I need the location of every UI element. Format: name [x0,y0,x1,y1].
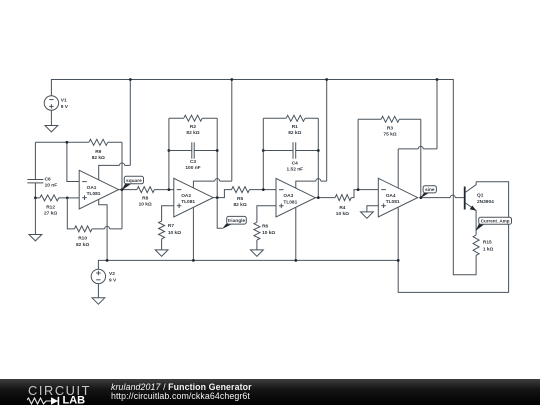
svg-text:Q1: Q1 [477,192,484,198]
svg-text:R10: R10 [78,236,87,242]
svg-text:OA4: OA4 [386,193,396,199]
svg-text:82 kΩ: 82 kΩ [76,242,89,248]
ground below V2 [92,298,105,304]
svg-text:R12: R12 [46,204,55,210]
svg-text:C6: C6 [45,176,51,182]
svg-text:R15: R15 [483,240,492,246]
wire to ground below R12 [34,198,36,235]
svg-text:10 nF: 10 nF [45,183,58,189]
footer caption text [111,383,252,401]
wire OA2 V- pin to bottom rail [192,207,194,260]
svg-text:R9: R9 [95,149,101,155]
svg-text:R2: R2 [190,124,196,130]
op-amp OA4 [378,178,417,217]
wire OA1 noninverting input [67,197,79,199]
wire OA2 V+ pin to top rail [193,80,231,189]
svg-text:TL081: TL081 [87,191,101,197]
resistor R1 [263,115,318,136]
svg-text:V2: V2 [109,271,115,277]
voltage source V1 [44,96,69,110]
transistor Q1 [464,182,494,235]
op-amp OA1 [79,170,118,209]
capacitor C4 [263,142,318,172]
svg-text:R6: R6 [262,223,268,229]
svg-text:TL081: TL081 [283,199,297,205]
wire R2/C3 left branch [168,118,170,189]
wire R3 right branch [420,119,422,197]
junction [168,188,171,191]
wire OA1 V- pin to bottom rail [99,199,107,260]
junction [262,188,265,191]
svg-text:75 kΩ: 75 kΩ [383,131,396,137]
resistor R15 [473,235,493,255]
resistor R10 [67,190,122,248]
svg-text:TL081: TL081 [181,199,195,205]
svg-text:OA2: OA2 [181,193,191,199]
wire bottom supply rail [98,260,398,269]
svg-text:Current_Amp: Current_Amp [481,219,510,224]
svg-text:R1: R1 [292,124,298,130]
wire OA4 noninverting input to ground [367,206,378,212]
svg-text:R4: R4 [339,205,345,211]
op-amp OA3 [276,178,315,217]
svg-text:C3: C3 [190,159,196,165]
wire OA1 V+ pin to top rail [99,80,131,181]
svg-text:LAB: LAB [63,394,86,404]
svg-text:OA3: OA3 [283,193,293,199]
svg-text:C4: C4 [292,161,298,167]
svg-text:82 kΩ: 82 kΩ [92,155,105,161]
svg-text:82 kΩ: 82 kΩ [186,130,199,136]
junction [192,259,195,262]
net flag Current_Amp [476,217,512,231]
junction [436,78,439,81]
capacitor C6 [27,142,57,198]
wire R2/C3 right branch [216,118,218,197]
resistor R7 [159,206,182,250]
svg-text:9 V: 9 V [61,104,69,110]
svg-text:R3: R3 [387,125,393,131]
svg-text:V1: V1 [61,97,67,103]
wire OA4 output to Q1 base [420,195,463,198]
svg-text:10 kΩ: 10 kΩ [139,202,152,208]
wire OA3 V- pin to bottom rail [295,207,297,260]
junction [66,141,69,144]
svg-text:82 kΩ: 82 kΩ [234,202,247,208]
junction [106,259,109,262]
resistor R6 [254,206,276,250]
resistor R9 [89,139,108,161]
voltage source V2 [91,269,117,283]
svg-text:10 kΩ: 10 kΩ [168,230,181,236]
svg-text:27 kΩ: 27 kΩ [44,210,57,216]
wire OA2 output [213,190,231,198]
svg-text:10 kΩ: 10 kΩ [262,230,275,236]
svg-text:10 kΩ: 10 kΩ [336,211,349,217]
junction [168,149,171,152]
junction [262,149,265,152]
svg-text:2N3904: 2N3904 [477,199,494,205]
svg-text:R7: R7 [168,223,174,229]
wire R3 left branch [357,119,359,189]
CircuitLab logo [27,380,107,405]
wire R1/C4 right branch [317,118,319,197]
junction [66,197,69,200]
resistor R3 [358,116,421,137]
resistor R12 [35,195,67,216]
wire stub to triangle flag [217,198,222,229]
svg-text:100 nF: 100 nF [185,165,200,171]
svg-text:1.52 nF: 1.52 nF [287,167,304,173]
wire node R9/C6 to OA1 inverting input [35,142,122,189]
junction [230,78,233,81]
wire OA4 V- pin through bottom rail to collector loop [398,182,508,293]
resistor R8 [137,187,174,208]
net flag triangle [222,216,246,229]
junction node square [121,188,124,191]
junction [397,259,400,262]
op-amp OA2 [174,178,213,217]
wire R1/C4 left branch [262,118,264,189]
junction [34,197,37,200]
junction node triangle [216,196,219,199]
ground below R12 [29,235,42,241]
junction [129,78,132,81]
wire V2 to ground [97,284,99,298]
wire OA4 V+ pin to top rail [398,80,437,189]
resistor R2 [169,115,217,136]
junction [317,196,320,199]
wire OA3 output [316,197,336,199]
ground at OA4 + input [361,212,374,218]
wire top supply rail from V1 to right side [51,80,476,275]
svg-text:triangle: triangle [228,218,246,224]
svg-text:9 V: 9 V [109,278,117,284]
resistor R5 [232,187,277,208]
wire V1 to ground [50,110,52,125]
svg-text:TL081: TL081 [386,199,400,205]
junction [317,149,320,152]
svg-text:R8: R8 [142,196,148,202]
wire OA1 output [119,189,137,191]
net flag square [122,176,144,190]
ground below R7 [155,250,168,256]
CircuitLab footer bar [0,379,540,405]
svg-text:sine: sine [425,187,435,193]
junction [216,149,219,152]
svg-text:82 kΩ: 82 kΩ [288,130,301,136]
resistor R4 [335,190,378,218]
junction node sine [419,196,422,199]
junction [357,188,360,191]
ground below R6 [251,250,264,256]
svg-text:R5: R5 [237,196,243,202]
junction [325,78,328,81]
svg-text:square: square [126,178,142,184]
wire OA3 V+ pin to top rail [296,80,327,189]
ground below V1 [45,126,58,132]
junction [294,259,297,262]
svg-text:1 kΩ: 1 kΩ [483,246,494,252]
capacitor C3 [169,142,217,171]
svg-text:OA1: OA1 [87,185,97,191]
net flag sine [420,186,436,198]
